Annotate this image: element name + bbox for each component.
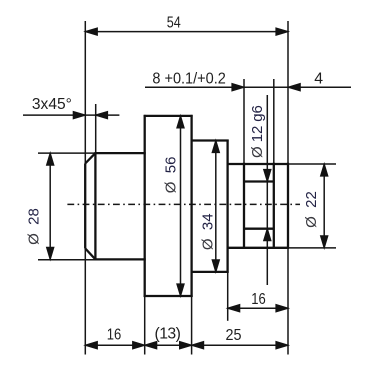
dim line dia28	[49, 153, 51, 259]
dim line dia34	[215, 141, 217, 272]
extension line x=244 above part	[243, 79, 245, 164]
outline: left face	[84, 164, 86, 249]
svg-text:8 +0.1/+0.2: 8 +0.1/+0.2	[152, 70, 226, 87]
extension line chamfer x=95.7	[95, 104, 97, 153]
outline: dia22 bottom edge	[227, 247, 289, 249]
extension line for dia28 bottom	[38, 259, 95, 261]
dim line dia12	[266, 95, 268, 285]
arrow 4 left	[288, 84, 300, 91]
outline: flange bottom edge	[144, 295, 193, 297]
outline: dia28 bottom edge	[94, 258, 145, 260]
dim line dia22	[323, 164, 325, 248]
arrow 54 left	[85, 28, 97, 35]
dim line 54	[85, 31, 288, 33]
arrow 25 left	[192, 342, 204, 349]
arrow 8 right	[232, 84, 244, 91]
svg-text:4: 4	[314, 71, 323, 88]
outline: chamfer top diagonal	[85, 153, 95, 163]
svg-text:3x45°: 3x45°	[32, 96, 72, 113]
svg-text:(13): (13)	[155, 325, 181, 342]
arrow dia28 up	[47, 153, 54, 165]
extension line x=273.8 above part	[273, 79, 275, 164]
arrow dia34 up	[212, 141, 219, 153]
centerline	[67, 203, 300, 205]
dim line 16 right	[228, 307, 288, 309]
leader 3x45	[23, 114, 119, 116]
dim line dia56	[180, 116, 182, 296]
arrow 16 right	[133, 342, 145, 349]
extension line x=191.6 below part	[191, 296, 193, 355]
outline: flange left face	[144, 115, 146, 297]
outline: dia12 bottom edge	[244, 228, 274, 230]
outline: dia34 bottom edge	[192, 271, 229, 273]
arrow 3x45 right-pointing	[73, 112, 85, 119]
arrow dia22 up	[321, 164, 328, 176]
arrow 13 left	[145, 342, 157, 349]
bottom dim line	[85, 344, 288, 346]
outline: groove left face	[243, 163, 245, 249]
extension line right x=288	[287, 21, 289, 355]
arrow 25 right	[276, 342, 288, 349]
arrow dia12 down to top edge	[264, 170, 271, 182]
outline: right end face	[287, 163, 289, 249]
svg-text:54: 54	[167, 15, 181, 32]
arrow dia22 down	[321, 236, 328, 248]
outline: step face	[226, 140, 228, 273]
svg-text:Ø 22: Ø 22	[303, 191, 320, 228]
arrow 3x45 left-pointing	[96, 112, 108, 119]
dim line 8/4	[145, 86, 351, 88]
extension line left x=85.3	[84, 21, 86, 355]
svg-text:Ø 56: Ø 56	[163, 157, 180, 194]
svg-text:Ø 12 g6: Ø 12 g6	[249, 105, 266, 158]
arrow dia56 down	[177, 284, 184, 296]
outline: dia22 top edge	[227, 163, 289, 165]
extension line for dia22 top	[288, 163, 336, 165]
arrow dia28 down	[47, 247, 54, 259]
svg-text:Ø 34: Ø 34	[200, 213, 217, 250]
outline: flange right face	[190, 115, 192, 297]
svg-text:25: 25	[226, 327, 242, 344]
outline: dia28 top edge	[94, 152, 145, 154]
arrow 13 right	[180, 342, 192, 349]
outline: flange top edge	[144, 115, 193, 117]
outline: dia12 top edge	[244, 180, 274, 182]
outline: groove right face	[273, 163, 275, 249]
arrow dia56 up	[177, 116, 184, 128]
outline: chamfer bottom diagonal	[85, 248, 95, 259]
outline: dia34 top edge	[192, 139, 229, 141]
arrow dia12 up to bottom edge	[264, 229, 271, 241]
arrow 54 right	[276, 28, 288, 35]
svg-text:16: 16	[251, 291, 266, 308]
outline: chamfer vertical	[94, 153, 96, 259]
svg-text:16: 16	[107, 327, 122, 344]
arrow 16r left	[228, 305, 240, 312]
extension line for dia28 top	[38, 152, 95, 154]
extension line x=227.6 below part	[227, 272, 229, 321]
extension line for dia22 bottom	[288, 247, 336, 249]
arrow 16 left	[85, 342, 97, 349]
arrow 16r right	[276, 305, 288, 312]
extension line x=144.7 below part	[144, 296, 146, 355]
svg-text:Ø 28: Ø 28	[26, 208, 43, 245]
arrow dia34 down	[212, 260, 219, 272]
